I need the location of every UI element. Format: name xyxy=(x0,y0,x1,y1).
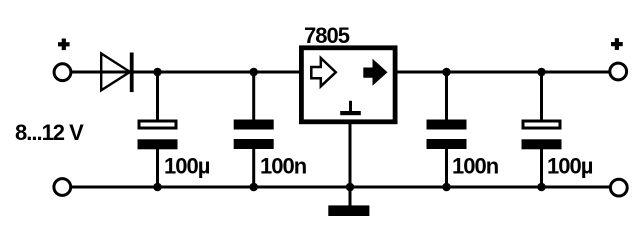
svg-text:7805: 7805 xyxy=(304,23,350,48)
svg-text:100n: 100n xyxy=(260,154,307,179)
svg-text:100µ: 100µ xyxy=(164,154,210,179)
svg-text:8...12 V: 8...12 V xyxy=(15,120,84,145)
svg-text:100n: 100n xyxy=(452,154,499,179)
svg-text:100µ: 100µ xyxy=(547,154,593,179)
